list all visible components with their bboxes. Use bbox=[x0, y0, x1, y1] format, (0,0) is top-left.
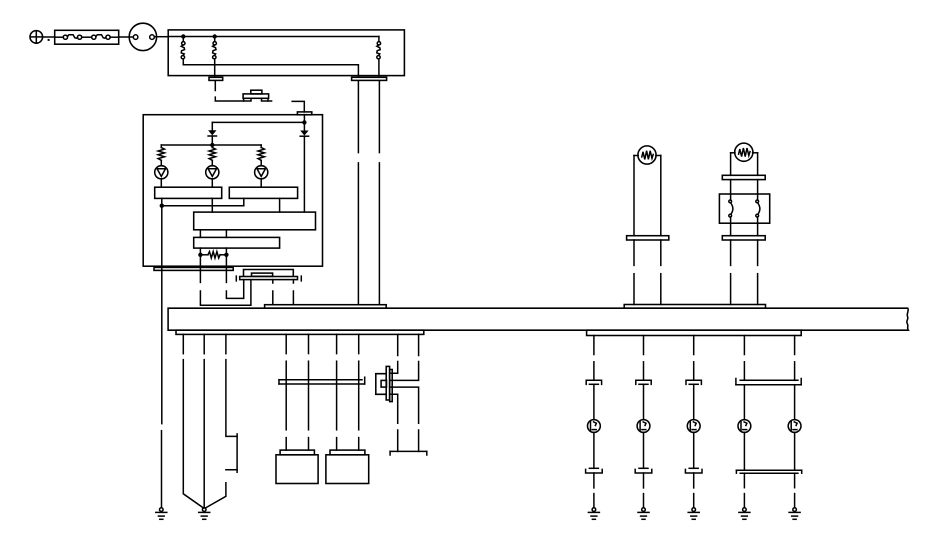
node J7 bbox=[224, 253, 228, 257]
connector C3 (ECU top) bbox=[297, 112, 311, 115]
junction box (S2 contacts) bbox=[719, 194, 769, 223]
wire M3 bbox=[336, 334, 338, 450]
injector INJ5 bbox=[788, 385, 801, 470]
ground G1 bbox=[156, 508, 167, 519]
connector C13 (col1 lower) bbox=[586, 468, 603, 507]
connector strip right (under bus) bbox=[587, 330, 802, 335]
wire left long (bar1 down) bbox=[161, 198, 163, 266]
wires bar4 to resistor R4 bbox=[200, 248, 226, 255]
node J2 bbox=[213, 34, 217, 38]
connector C9 (4P tray) bbox=[279, 377, 365, 384]
relay box bbox=[168, 30, 404, 76]
connector C16 (col3) bbox=[686, 380, 701, 419]
LED1 bbox=[155, 166, 168, 188]
resistor R2 bbox=[209, 145, 215, 166]
connector C17 (col3 lower) bbox=[685, 468, 702, 507]
wire M2 bbox=[308, 334, 310, 450]
ground G7 bbox=[789, 508, 800, 519]
pushbutton switch SW2 right contact bbox=[262, 98, 272, 101]
ELD unit bracket bbox=[244, 270, 294, 277]
connector strip left (under bus) bbox=[176, 330, 424, 334]
main harness bus bbox=[168, 308, 908, 330]
fuse box FB1 bbox=[55, 30, 119, 44]
ground G6 bbox=[739, 508, 750, 519]
inline connector C10 bbox=[376, 366, 392, 401]
ELD unit bar bbox=[240, 277, 298, 280]
wire col5 to ground bbox=[794, 473, 796, 507]
wire CB1 to relay box bottom bbox=[183, 65, 358, 76]
ground G5 bbox=[688, 508, 699, 519]
PCB bar 2 bbox=[229, 187, 297, 198]
contact K1 bbox=[729, 194, 733, 223]
O2 sensor S2 heater bbox=[735, 143, 753, 161]
diode D1 bbox=[208, 130, 216, 145]
connector pad P2 (on bus, right) bbox=[624, 305, 765, 309]
circuit breaker CB2 bbox=[213, 37, 217, 77]
node J6 bbox=[198, 253, 202, 257]
wires bar3 to bar4 bbox=[200, 230, 226, 238]
wire R1a (right pair first) bbox=[391, 334, 398, 451]
injector column 5 wire bbox=[794, 336, 796, 381]
connector C2 (relay box bottom wide) bbox=[352, 77, 387, 80]
wires junction box to C7 bbox=[731, 223, 758, 236]
injector INJ1 bbox=[588, 420, 601, 469]
wire relay C2 down right bbox=[378, 81, 380, 305]
pushbutton switch SW2 cap bbox=[251, 90, 262, 94]
ignition coil T1 bbox=[276, 450, 318, 483]
node dot on battery wire bbox=[48, 39, 50, 41]
resistor R1 bbox=[158, 145, 164, 166]
connector C12 (col1) bbox=[586, 380, 601, 419]
wire ignition switch to relay box bbox=[154, 36, 168, 38]
pushbutton switch SW2 bar bbox=[243, 94, 269, 98]
node J5 bbox=[160, 204, 164, 208]
connector C4 (below control unit) bbox=[154, 267, 233, 270]
injector column 4 wire bbox=[743, 336, 745, 381]
wire B from J7 down bbox=[226, 255, 243, 299]
wire bus inside relay box bbox=[168, 36, 379, 38]
resistor R3 bbox=[258, 145, 264, 166]
wire col4 to ground bbox=[743, 473, 745, 507]
ELD unit cap bbox=[252, 273, 273, 276]
O2 sensor S1 heater bbox=[638, 146, 656, 164]
wire horizontal to resistors bbox=[161, 144, 261, 146]
ignition switch SW1 bbox=[129, 23, 156, 50]
ground G3 bbox=[588, 508, 599, 519]
connector C6 (S2 upper) bbox=[722, 175, 765, 179]
wire battery to fuse box bbox=[43, 36, 55, 38]
wire bar1 to bar3 bbox=[211, 198, 213, 212]
connector C7 (S2 lower) bbox=[722, 236, 765, 240]
wire D2 down to PCB bar 3 bbox=[303, 136, 305, 212]
diode D2 bbox=[300, 131, 308, 137]
wire ECU left to ground bbox=[161, 266, 163, 507]
ELD unit bar ticks bbox=[236, 276, 301, 281]
ground G4 bbox=[638, 508, 649, 519]
fuse F2 bbox=[92, 35, 119, 40]
wire L2 (strip to ground) bbox=[203, 334, 205, 507]
contact K2 bbox=[756, 194, 760, 223]
wires C6 to junction box bbox=[731, 180, 758, 194]
wire down to diode D1 bbox=[211, 122, 213, 130]
PCB bar 3 bbox=[194, 212, 316, 230]
wire M4 bbox=[358, 334, 360, 450]
O2 sensor S1 leads bbox=[634, 156, 661, 236]
connector C18 (cols 4-5 shared upper) bbox=[736, 379, 801, 385]
connector C5 (S1) bbox=[627, 236, 669, 240]
wire L3 with inline connector C8 bbox=[205, 334, 237, 508]
node J3 bbox=[302, 120, 306, 124]
circuit breaker CB3 bbox=[377, 37, 381, 76]
wire C1 down bbox=[214, 81, 216, 91]
node J1 bbox=[181, 34, 185, 38]
LED2 bbox=[206, 166, 219, 188]
connector pad P1 (on bus, left) bbox=[265, 305, 387, 309]
injector column 3 wire bbox=[693, 336, 695, 381]
wire branch J5 to bar2 bbox=[162, 198, 244, 205]
circuit breaker CB1 bbox=[181, 37, 185, 65]
ELD pin 1 bbox=[272, 280, 274, 305]
wire M1 bbox=[285, 334, 287, 450]
wire C3 into box bbox=[303, 115, 305, 131]
battery B1 bbox=[30, 31, 43, 44]
resistor R4 bbox=[200, 252, 226, 258]
pushbutton switch SW2 left contact bbox=[215, 97, 251, 101]
wire to connector C3 bbox=[292, 101, 304, 112]
connector C14 (col2) bbox=[636, 380, 651, 419]
ELD pin 2 bbox=[292, 280, 294, 305]
wire relay C2 down left bbox=[357, 81, 359, 305]
control unit box bbox=[143, 115, 322, 267]
wires S2 to bus bbox=[731, 240, 758, 305]
node J4 bbox=[210, 143, 214, 147]
connector C11 (open cup) bbox=[390, 451, 427, 455]
wire R1b (right pair second) bbox=[391, 334, 419, 451]
wire L1 (strip to ground V) bbox=[183, 334, 203, 508]
wire top inside box bbox=[212, 121, 304, 123]
injector column 1 wire bbox=[593, 336, 595, 381]
fuse F1 bbox=[55, 35, 92, 40]
PCB bar 1 bbox=[155, 187, 222, 198]
wire A from J6 down bbox=[200, 255, 251, 305]
ignition coil T2 bbox=[326, 450, 369, 483]
connector C19 (cols 4-5 shared lower) bbox=[736, 470, 801, 473]
injector INJ4 bbox=[738, 385, 751, 470]
connector C1 (relay box bottom small) bbox=[209, 77, 223, 80]
wire bar2 to bar3 bbox=[279, 198, 281, 212]
ground G2 bbox=[199, 508, 210, 519]
wire fuse box to ignition switch bbox=[119, 36, 134, 38]
pushbutton switch SW2 bar ticks bbox=[244, 98, 268, 101]
LED3 bbox=[255, 166, 268, 188]
connector C15 (col2 lower) bbox=[635, 468, 652, 507]
injector column 2 wire bbox=[643, 336, 645, 381]
wires S1 to bus bbox=[634, 240, 661, 305]
O2 sensor S2 leads bbox=[731, 153, 758, 176]
PCB bar 4 bbox=[194, 237, 280, 248]
injector INJ3 bbox=[687, 420, 700, 469]
injector INJ2 bbox=[637, 420, 650, 469]
